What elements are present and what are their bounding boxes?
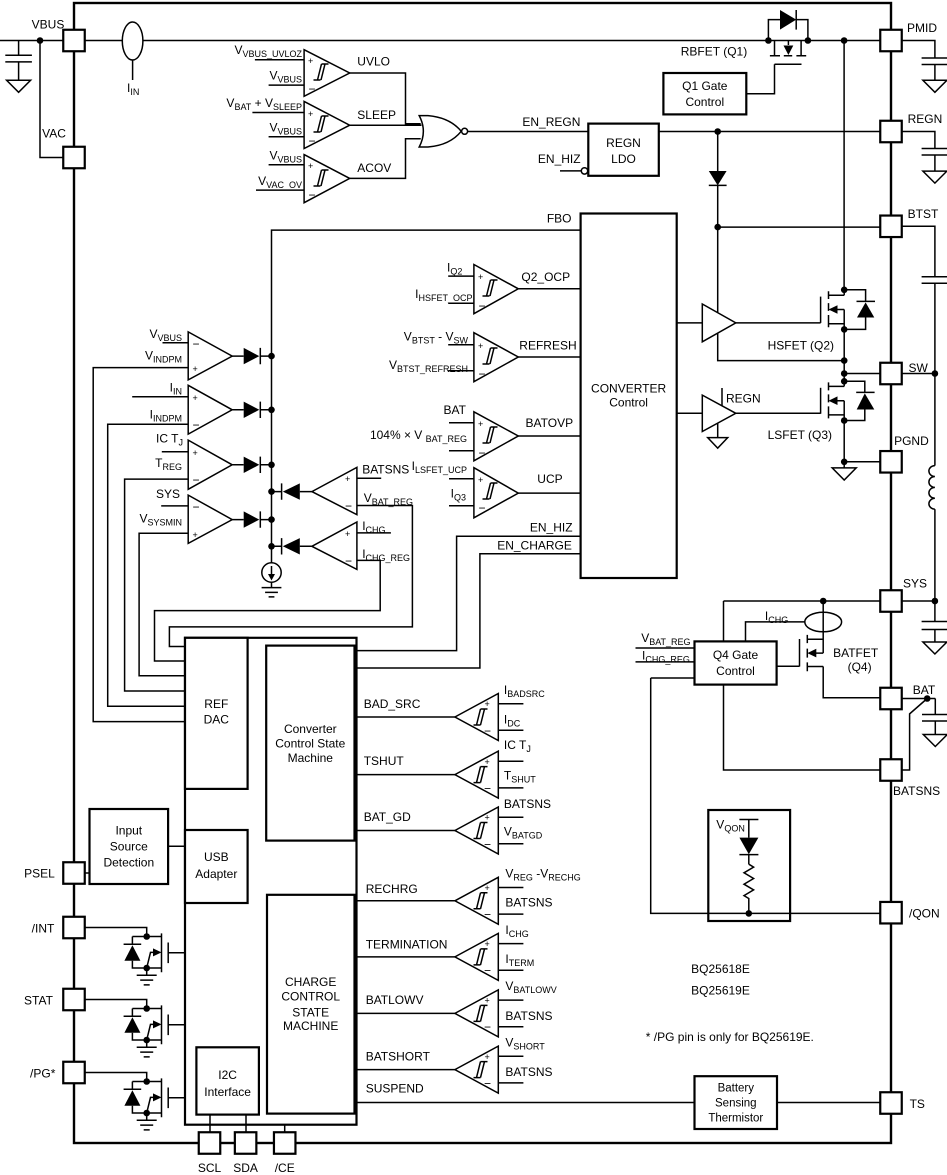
ground (cell /PG*) bbox=[137, 1113, 157, 1130]
svg-text:REGN: REGN bbox=[726, 392, 761, 406]
svg-text:−: − bbox=[193, 418, 200, 432]
comparator BAT_GD bbox=[357, 797, 552, 854]
pin VBUS bbox=[63, 30, 85, 52]
REF DAC box bbox=[185, 638, 248, 789]
diode D_QON bbox=[739, 838, 758, 855]
Battery Sensing Thermistor box bbox=[695, 1076, 778, 1129]
svg-text:HSFET (Q2): HSFET (Q2) bbox=[768, 338, 834, 352]
svg-text:+: + bbox=[308, 109, 313, 119]
wire SDA bbox=[245, 1115, 247, 1133]
svg-text:BATSNS: BATSNS bbox=[505, 1065, 552, 1079]
outer control block box bbox=[185, 638, 357, 1125]
diode OR d6 bbox=[272, 538, 312, 554]
svg-text:+: + bbox=[485, 757, 490, 767]
wire ISD to USB Adapter bbox=[168, 845, 185, 847]
svg-text:Input: Input bbox=[115, 824, 142, 838]
svg-text:LSFET (Q3): LSFET (Q3) bbox=[768, 428, 832, 442]
svg-text:REF: REF bbox=[204, 697, 228, 711]
ground (external, BAT cap) bbox=[923, 735, 947, 747]
svg-text:−: − bbox=[484, 781, 491, 795]
svg-text:SDA: SDA bbox=[233, 1161, 258, 1175]
diode OR d4 bbox=[232, 511, 271, 527]
transistor open-drain cell /INT bbox=[85, 928, 185, 985]
capacitor C_BAT external bbox=[922, 699, 947, 735]
current sense I_IN ellipse bbox=[122, 22, 143, 60]
pin BAT bbox=[880, 688, 902, 710]
ground (internal, current source) bbox=[262, 588, 282, 597]
CONVERTER Control box bbox=[581, 214, 677, 579]
REGN LDO box bbox=[588, 124, 659, 176]
svg-text:−: − bbox=[193, 473, 200, 487]
pin BTST bbox=[880, 216, 902, 238]
svg-text:+: + bbox=[308, 56, 313, 66]
pin SYS bbox=[880, 590, 902, 612]
svg-text:Interface: Interface bbox=[204, 1085, 251, 1099]
svg-text:BAT: BAT bbox=[444, 403, 467, 417]
wire PSEL to ISD bbox=[85, 872, 90, 874]
svg-text:Adapter: Adapter bbox=[195, 867, 237, 881]
wire EN_CHARGE to REF DAC block bbox=[357, 554, 581, 668]
comparator UVLO bbox=[234, 43, 420, 124]
svg-text:−: − bbox=[484, 724, 491, 738]
svg-text:+: + bbox=[308, 161, 313, 171]
svg-text:−: − bbox=[193, 337, 200, 351]
ground (cell STAT) bbox=[137, 1040, 157, 1057]
svg-text:/QON: /QON bbox=[909, 907, 940, 921]
svg-text:−: − bbox=[309, 188, 316, 202]
svg-text:BATSHORT: BATSHORT bbox=[366, 1050, 431, 1064]
svg-text:DAC: DAC bbox=[204, 712, 230, 726]
wire ICHG_REG feedback to REF DAC bbox=[155, 560, 381, 661]
wire VBAT_REG input stub bbox=[636, 647, 695, 649]
svg-text:+: + bbox=[485, 1052, 490, 1062]
wire SYS external node bbox=[902, 600, 935, 602]
wire VAC branch bbox=[40, 41, 63, 158]
svg-text:USB: USB bbox=[204, 850, 229, 864]
svg-text:−: − bbox=[309, 82, 316, 96]
RBFET (Q1) bbox=[746, 10, 811, 94]
svg-text:Detection: Detection bbox=[103, 856, 154, 870]
svg-text:SYS: SYS bbox=[903, 577, 927, 591]
wire BATFET drain to BAT pin bbox=[823, 667, 880, 698]
svg-text:−: − bbox=[484, 1020, 491, 1034]
svg-text:−: − bbox=[479, 299, 486, 313]
wire BAT external bbox=[902, 698, 936, 700]
comparator UCP bbox=[412, 459, 581, 518]
wire PMID to HSFET drain vertical bbox=[843, 41, 845, 290]
svg-text:SLEEP: SLEEP bbox=[357, 108, 396, 122]
svg-text:+: + bbox=[478, 272, 483, 282]
diode D_BTST bootstrap bbox=[717, 132, 719, 172]
capacitor C_SYS external bbox=[922, 601, 947, 642]
svg-text:Control: Control bbox=[716, 664, 755, 678]
svg-text:+: + bbox=[478, 341, 483, 351]
wire TS to thermistor bbox=[777, 1102, 880, 1104]
svg-text:PSEL: PSEL bbox=[24, 867, 55, 881]
wire REGN supply tick bbox=[721, 388, 723, 406]
svg-text:+: + bbox=[485, 883, 490, 893]
capacitor C_PMID external bbox=[902, 41, 947, 81]
svg-text:−: − bbox=[479, 501, 486, 515]
diode body D_Q2 bbox=[844, 290, 875, 330]
transistor HSFET (Q2) bbox=[821, 287, 848, 333]
svg-text:−: − bbox=[484, 964, 491, 978]
svg-text:UCP: UCP bbox=[537, 472, 562, 486]
wire SYSMIN feedback to REF DAC bbox=[139, 533, 188, 676]
svg-text:−: − bbox=[479, 446, 486, 460]
wire IINDPM feedback to REF DAC bbox=[108, 424, 189, 706]
ground (external, VBUS cap) bbox=[7, 80, 31, 92]
pin REGN bbox=[880, 121, 902, 143]
wire SYS to BATFET bbox=[724, 600, 881, 602]
svg-text:Control: Control bbox=[609, 396, 648, 410]
svg-text:Q4 Gate: Q4 Gate bbox=[713, 648, 759, 662]
wire BATSNS internal bbox=[724, 685, 881, 770]
pin VAC bbox=[63, 147, 85, 169]
svg-text:BATSNS: BATSNS bbox=[893, 784, 940, 798]
svg-text:−: − bbox=[345, 554, 352, 568]
svg-text:+: + bbox=[485, 939, 490, 949]
svg-text:Q1 Gate: Q1 Gate bbox=[682, 79, 728, 93]
diode OR d5 bbox=[272, 483, 312, 499]
svg-text:+: + bbox=[485, 996, 490, 1006]
wire EN_REGN bbox=[468, 131, 589, 133]
node VBUS/VAC junction bbox=[37, 37, 44, 44]
transistor open-drain cell /PG* bbox=[85, 1073, 185, 1130]
svg-text:Sensing: Sensing bbox=[715, 1098, 757, 1110]
svg-text:ACOV: ACOV bbox=[357, 161, 391, 175]
svg-text:BATSNS: BATSNS bbox=[505, 1009, 552, 1023]
wire Q4 gate bbox=[777, 665, 800, 667]
svg-text:/CE: /CE bbox=[275, 1161, 295, 1175]
comparator BATLOWV bbox=[357, 979, 557, 1037]
svg-text:Machine: Machine bbox=[288, 751, 334, 765]
pin PSEL bbox=[63, 862, 85, 884]
USB Adapter box bbox=[185, 830, 248, 903]
svg-text:+: + bbox=[485, 699, 490, 709]
pin BATSNS bbox=[880, 759, 902, 781]
capacitor C_REGN external bbox=[902, 132, 947, 172]
pin TS bbox=[880, 1092, 902, 1114]
svg-text:MACHINE: MACHINE bbox=[283, 1019, 338, 1033]
svg-text:VAC: VAC bbox=[42, 127, 66, 141]
transistor LSFET (Q3) bbox=[821, 378, 848, 424]
Q1 Gate Control box bbox=[663, 73, 746, 114]
pin /QON bbox=[880, 902, 902, 924]
transistor BATFET (Q4) bbox=[800, 601, 824, 671]
comparator SLEEP bbox=[226, 96, 421, 149]
pin /INT bbox=[63, 917, 85, 939]
comparator REFRESH bbox=[389, 329, 581, 381]
driver LSFET gate driver bbox=[702, 395, 736, 431]
wire HSFET source to SW bbox=[843, 329, 845, 381]
svg-text:BATSNS: BATSNS bbox=[362, 463, 409, 477]
svg-text:/INT: /INT bbox=[32, 922, 55, 936]
svg-text:+: + bbox=[193, 393, 198, 403]
svg-text:CHARGE: CHARGE bbox=[285, 975, 336, 989]
diode OR d2 bbox=[232, 402, 271, 418]
svg-text:VBUS: VBUS bbox=[32, 18, 65, 32]
svg-text:CONTROL: CONTROL bbox=[281, 990, 340, 1004]
current sense I_CHG ellipse bbox=[805, 612, 842, 632]
wire /CE bbox=[284, 1125, 286, 1133]
NOR gate U1 bbox=[419, 116, 467, 147]
diode OR d3 bbox=[232, 457, 271, 473]
comparator TREG (left column 3) bbox=[155, 431, 232, 489]
ground (external, PMID cap) bbox=[923, 80, 947, 92]
svg-text:PGND: PGND bbox=[894, 434, 929, 448]
ground (external, SYS cap) bbox=[923, 642, 947, 654]
supply tick V_QON bbox=[739, 820, 758, 838]
svg-text:TERMINATION: TERMINATION bbox=[366, 938, 448, 952]
pin SCL bbox=[199, 1132, 221, 1154]
svg-text:−: − bbox=[484, 837, 491, 851]
comparator TERMINATION bbox=[357, 923, 535, 981]
pin SDA bbox=[235, 1132, 257, 1154]
current source I_BIAS bbox=[262, 563, 281, 582]
capacitor C_VBUS external bbox=[5, 41, 32, 81]
svg-text:Q2_OCP: Q2_OCP bbox=[521, 270, 570, 284]
wire ICHG_REG input stub bbox=[636, 661, 695, 663]
driver HSFET gate driver bbox=[702, 304, 736, 342]
svg-text:+: + bbox=[478, 475, 483, 485]
svg-text:REGN: REGN bbox=[606, 136, 641, 150]
svg-text:UVLO: UVLO bbox=[357, 54, 390, 68]
svg-text:RBFET (Q1): RBFET (Q1) bbox=[681, 45, 747, 59]
svg-text:BQ25619E: BQ25619E bbox=[691, 984, 750, 998]
comparator BATSNS/VBAT_REG bbox=[312, 463, 413, 515]
diode ESD STAT bbox=[124, 1009, 147, 1041]
pin STAT bbox=[63, 989, 85, 1011]
wire BTST to pin bbox=[718, 226, 881, 228]
CHARGE CONTROL STATE MACHINE box bbox=[267, 895, 355, 1114]
svg-text:STAT: STAT bbox=[24, 994, 54, 1008]
svg-text:BTST: BTST bbox=[908, 207, 939, 221]
svg-text:/PG*: /PG* bbox=[30, 1067, 56, 1081]
node PMID rail to HSFET drain bbox=[841, 37, 848, 44]
svg-text:SYS: SYS bbox=[156, 487, 180, 501]
svg-text:+: + bbox=[193, 530, 198, 540]
comparator BATOVP bbox=[370, 403, 581, 461]
wire TREG feedback to REF DAC bbox=[125, 479, 189, 691]
svg-text:+: + bbox=[345, 529, 350, 539]
pin /CE bbox=[274, 1132, 296, 1154]
wire SW pin connection bbox=[844, 373, 880, 375]
pin SW bbox=[880, 363, 902, 385]
transistor open-drain cell STAT bbox=[85, 1000, 185, 1057]
inductor L1 external bbox=[929, 466, 935, 510]
svg-text:−: − bbox=[345, 499, 352, 513]
ground (LSFET source) bbox=[843, 462, 845, 468]
svg-text:Control: Control bbox=[685, 95, 724, 109]
svg-text:PMID: PMID bbox=[907, 21, 937, 35]
wire REGN LDO output to REGN pin bbox=[659, 131, 880, 133]
svg-text:BATFET: BATFET bbox=[833, 646, 879, 660]
Q4 Gate Control box bbox=[695, 641, 777, 684]
wire ICHG sense bbox=[746, 622, 805, 642]
comparator ACOV bbox=[256, 139, 421, 203]
ground (external, REGN cap) bbox=[923, 171, 947, 183]
svg-text:Control State: Control State bbox=[275, 737, 345, 751]
ground (cell /INT) bbox=[137, 968, 157, 985]
comparator SYSMIN (left column 4) bbox=[139, 487, 232, 544]
Converter Control State Machine box bbox=[266, 646, 354, 841]
svg-text:EN_CHARGE: EN_CHARGE bbox=[497, 539, 572, 553]
svg-text:BQ25618E: BQ25618E bbox=[691, 962, 750, 976]
svg-text:LDO: LDO bbox=[611, 152, 636, 166]
svg-text:Thermistor: Thermistor bbox=[708, 1113, 763, 1125]
svg-text:BATSNS: BATSNS bbox=[504, 797, 551, 811]
svg-text:I2C: I2C bbox=[218, 1068, 237, 1082]
svg-text:+: + bbox=[193, 364, 198, 374]
wire FBO bbox=[272, 230, 581, 563]
pin /PG* bbox=[63, 1062, 85, 1084]
node REGN to bootstrap diode bbox=[714, 128, 721, 135]
wire SUSPEND/thermistor bbox=[357, 1102, 695, 1104]
svg-text:−: − bbox=[193, 500, 200, 514]
comparator IINDPM (left column 2) bbox=[132, 380, 232, 434]
diode body D_Q3 bbox=[844, 381, 874, 420]
svg-text:EN_HIZ: EN_HIZ bbox=[538, 152, 581, 166]
wire EN_HIZ to REF DAC block bbox=[357, 536, 581, 650]
svg-text:Converter: Converter bbox=[284, 722, 337, 736]
comparator ICHG/ICHG_REG bbox=[312, 519, 410, 570]
comparator BAD_SRC bbox=[357, 683, 546, 741]
wire EN_HIZ with inverter bubble bbox=[560, 170, 581, 172]
V_QON box bbox=[708, 810, 790, 921]
comparator RECHRG bbox=[357, 866, 581, 924]
wire QON internal bbox=[651, 678, 881, 913]
svg-text:Source: Source bbox=[110, 840, 148, 854]
wire SCL bbox=[209, 1115, 211, 1133]
svg-text:BATLOWV: BATLOWV bbox=[366, 993, 424, 1007]
svg-text:TSHUT: TSHUT bbox=[364, 754, 405, 768]
Input Source Detection box bbox=[90, 809, 169, 884]
ground (LSFET driver) bbox=[717, 423, 719, 437]
svg-text:SUSPEND: SUSPEND bbox=[366, 1082, 424, 1096]
diode ESD /INT bbox=[124, 937, 147, 969]
wire VBAT_REG feedback to REF DAC bbox=[169, 506, 412, 647]
pin PMID bbox=[880, 30, 902, 52]
comparator TSHUT bbox=[357, 738, 537, 798]
comparator BATSHORT bbox=[357, 1035, 553, 1093]
svg-text:BATOVP: BATOVP bbox=[526, 416, 574, 430]
wire SW external bbox=[902, 374, 935, 466]
wire VINDPM feedback to REF DAC bbox=[93, 368, 188, 722]
I2C Interface box bbox=[196, 1047, 259, 1114]
svg-text:SCL: SCL bbox=[198, 1161, 222, 1175]
svg-text:* /PG pin is only for BQ25619E: * /PG pin is only for BQ25619E. bbox=[646, 1030, 814, 1044]
svg-text:BATSNS: BATSNS bbox=[505, 896, 552, 910]
wire BAT to BATSNS external bbox=[902, 699, 927, 771]
wire LSFET source to PGND bbox=[843, 421, 845, 462]
diode OR d1 bbox=[232, 348, 271, 364]
svg-text:FBO: FBO bbox=[547, 212, 572, 226]
svg-text:+: + bbox=[345, 474, 350, 484]
svg-text:EN_HIZ: EN_HIZ bbox=[530, 521, 573, 535]
svg-text:(Q4): (Q4) bbox=[848, 660, 872, 674]
svg-text:−: − bbox=[479, 367, 486, 381]
svg-text:+: + bbox=[193, 448, 198, 458]
svg-text:BAT: BAT bbox=[913, 683, 936, 697]
svg-text:TS: TS bbox=[910, 1097, 925, 1111]
svg-text:BAT_GD: BAT_GD bbox=[364, 810, 411, 824]
wire VBUS input rail bbox=[0, 40, 63, 42]
comparator Q2_OCP bbox=[415, 261, 580, 314]
svg-text:−: − bbox=[484, 908, 491, 922]
svg-text:Battery: Battery bbox=[718, 1083, 755, 1095]
svg-text:+: + bbox=[485, 813, 490, 823]
wire VBUS main rail to PMID bbox=[85, 40, 881, 42]
svg-text:CONVERTER: CONVERTER bbox=[591, 382, 666, 396]
svg-text:REGN: REGN bbox=[908, 112, 943, 126]
capacitor C_BTST external bootstrap bbox=[902, 226, 947, 373]
pin PGND bbox=[880, 451, 902, 473]
diode ESD /PG* bbox=[124, 1082, 147, 1114]
svg-text:+: + bbox=[478, 419, 483, 429]
svg-text:EN_REGN: EN_REGN bbox=[522, 115, 580, 129]
node BTST junction bbox=[714, 224, 721, 231]
svg-text:STATE: STATE bbox=[292, 1005, 329, 1019]
svg-text:BAD_SRC: BAD_SRC bbox=[364, 697, 421, 711]
svg-text:REFRESH: REFRESH bbox=[519, 338, 576, 352]
svg-text:−: − bbox=[309, 134, 316, 148]
comparator VINDPM (left column 1) bbox=[145, 327, 232, 380]
resistor R_QON bbox=[744, 864, 754, 913]
svg-text:−: − bbox=[484, 1076, 491, 1090]
svg-text:RECHRG: RECHRG bbox=[366, 882, 418, 896]
